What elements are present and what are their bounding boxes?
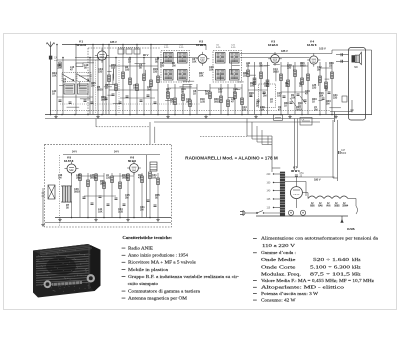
svg-text:2M: 2M bbox=[172, 65, 175, 68]
svg-text:5-25: 5-25 bbox=[164, 47, 169, 49]
svg-text:kHz: kHz bbox=[352, 257, 361, 262]
svg-text:2M: 2M bbox=[314, 109, 317, 112]
svg-text:220: 220 bbox=[242, 109, 247, 112]
svg-text:5000: 5000 bbox=[341, 153, 347, 155]
svg-text:Antenna magnetica per OM: Antenna magnetica per OM bbox=[128, 295, 187, 300]
svg-text:Potenza d’uscita max: 3 W: Potenza d’uscita max: 3 W bbox=[261, 291, 319, 296]
svg-text:5000: 5000 bbox=[122, 177, 128, 180]
svg-text:Mobile in plastica: Mobile in plastica bbox=[128, 267, 168, 272]
svg-text:220: 220 bbox=[287, 67, 292, 70]
svg-text:0,05: 0,05 bbox=[200, 101, 205, 104]
svg-text:V 1: V 1 bbox=[79, 40, 84, 44]
svg-text:110 a 220 V: 110 a 220 V bbox=[262, 243, 296, 248]
svg-text:1K: 1K bbox=[312, 101, 315, 104]
svg-text:V 3: V 3 bbox=[271, 40, 276, 44]
svg-text:Caratteristiche tecniche:: Caratteristiche tecniche: bbox=[122, 235, 172, 240]
svg-text:10K: 10K bbox=[291, 97, 296, 100]
svg-text:5-25: 5-25 bbox=[231, 47, 236, 49]
svg-text:24 V: 24 V bbox=[72, 151, 77, 154]
svg-text:10K: 10K bbox=[260, 109, 265, 112]
svg-text:Anno inizio produzione : 1954: Anno inizio produzione : 1954 bbox=[128, 253, 189, 258]
svg-text:Onde Medie: Onde Medie bbox=[261, 257, 296, 262]
svg-text:2M: 2M bbox=[91, 85, 94, 88]
svg-text:BE6: BE6 bbox=[310, 205, 315, 207]
svg-text:10K: 10K bbox=[192, 61, 197, 64]
svg-text:5000: 5000 bbox=[273, 71, 279, 74]
svg-text:1K: 1K bbox=[133, 87, 136, 90]
svg-text:220: 220 bbox=[312, 87, 317, 90]
svg-text:220: 220 bbox=[153, 71, 158, 74]
svg-text:5000: 5000 bbox=[90, 177, 96, 180]
svg-text:12 BA 6: 12 BA 6 bbox=[268, 43, 278, 47]
svg-text:2M: 2M bbox=[326, 103, 329, 106]
svg-text:1K: 1K bbox=[233, 91, 236, 94]
svg-text:35W4: 35W4 bbox=[342, 205, 349, 207]
svg-text:AV6: AV6 bbox=[326, 204, 331, 207]
svg-text:185 V: 185 V bbox=[281, 49, 288, 53]
svg-text:105 V: 105 V bbox=[319, 47, 326, 51]
svg-text:BA6: BA6 bbox=[318, 204, 323, 207]
svg-text:10K: 10K bbox=[319, 95, 324, 98]
svg-text:5000: 5000 bbox=[74, 191, 80, 194]
svg-text:5000: 5000 bbox=[101, 99, 107, 102]
svg-text:Gamme d’onda :: Gamme d’onda : bbox=[261, 250, 296, 255]
svg-text:10K: 10K bbox=[199, 75, 204, 78]
svg-text:220: 220 bbox=[106, 177, 111, 180]
svg-text:2M: 2M bbox=[147, 89, 150, 92]
svg-text:5.100 ÷ 6.300: 5.100 ÷ 6.300 bbox=[310, 264, 350, 269]
svg-text:50 B 5: 50 B 5 bbox=[128, 159, 136, 163]
svg-text:220: 220 bbox=[333, 97, 338, 100]
svg-text:180 V: 180 V bbox=[314, 179, 321, 182]
svg-text:100: 100 bbox=[250, 85, 255, 88]
svg-text:Consumo: 42 W: Consumo: 42 W bbox=[261, 297, 297, 302]
svg-text:C47: C47 bbox=[341, 150, 346, 152]
svg-text:cuito stampato: cuito stampato bbox=[128, 281, 158, 286]
svg-text:185 V: 185 V bbox=[110, 40, 117, 44]
svg-text:5-25: 5-25 bbox=[216, 47, 221, 49]
svg-text:Radio ANIE: Radio ANIE bbox=[128, 245, 153, 250]
svg-text:1K: 1K bbox=[284, 105, 287, 108]
svg-text:5000: 5000 bbox=[100, 183, 106, 186]
svg-text:10K: 10K bbox=[52, 75, 57, 78]
svg-text:1K: 1K bbox=[63, 81, 66, 84]
svg-text:12 AV 6: 12 AV 6 bbox=[307, 43, 317, 47]
svg-text:5000: 5000 bbox=[214, 101, 220, 104]
svg-text:V 2: V 2 bbox=[199, 40, 204, 44]
svg-text:220: 220 bbox=[98, 71, 103, 74]
svg-text:Altoparlante: MD - elittico: Altoparlante: MD - elittico bbox=[261, 285, 344, 290]
svg-text:12 AJ 8: 12 AJ 8 bbox=[77, 43, 87, 47]
svg-text:V 4: V 4 bbox=[310, 40, 315, 44]
svg-text:100: 100 bbox=[277, 95, 282, 98]
svg-text:MHz: MHz bbox=[352, 272, 361, 277]
svg-text:100: 100 bbox=[160, 65, 165, 68]
svg-text:90 V: 90 V bbox=[143, 53, 149, 57]
svg-text:Modulaz. Freq.: Modulaz. Freq. bbox=[261, 272, 301, 277]
svg-text:0,05: 0,05 bbox=[118, 211, 123, 214]
svg-text:5000: 5000 bbox=[300, 65, 306, 68]
svg-text:100: 100 bbox=[170, 101, 175, 104]
svg-text:100: 100 bbox=[152, 177, 157, 180]
svg-text:520 ÷ 1.640: 520 ÷ 1.640 bbox=[313, 257, 349, 262]
svg-text:100: 100 bbox=[264, 85, 269, 88]
svg-text:50B5: 50B5 bbox=[334, 205, 340, 207]
svg-text:2M: 2M bbox=[317, 69, 320, 72]
svg-text:1K: 1K bbox=[193, 93, 196, 96]
svg-text:2M: 2M bbox=[263, 95, 266, 98]
svg-text:12 BE 6: 12 BE 6 bbox=[196, 43, 206, 47]
svg-text:MD: MD bbox=[354, 66, 358, 69]
svg-text:5000: 5000 bbox=[97, 89, 103, 92]
svg-text:0,05: 0,05 bbox=[57, 67, 62, 70]
svg-text:Alimentazione con autotrasform: Alimentazione con autotrasformatore per … bbox=[261, 236, 378, 241]
svg-text:5000: 5000 bbox=[296, 109, 302, 112]
svg-text:5-25: 5-25 bbox=[179, 47, 184, 49]
svg-text:12 AT 6: 12 AT 6 bbox=[64, 159, 74, 163]
svg-text:100: 100 bbox=[218, 91, 223, 94]
svg-text:10K: 10K bbox=[98, 211, 103, 214]
svg-text:10K: 10K bbox=[209, 69, 214, 72]
svg-text:FUSIB.: FUSIB. bbox=[347, 228, 355, 231]
svg-text:kHz: kHz bbox=[352, 264, 361, 269]
svg-text:1K: 1K bbox=[285, 85, 288, 88]
svg-text:Onde Corte: Onde Corte bbox=[261, 264, 296, 269]
svg-text:Ricevitore MA + MF a 5 valvole: Ricevitore MA + MF a 5 valvole bbox=[128, 260, 196, 265]
svg-text:2M: 2M bbox=[76, 177, 79, 180]
svg-text:1K: 1K bbox=[249, 95, 252, 98]
svg-text:2M: 2M bbox=[259, 65, 262, 68]
svg-text:1K: 1K bbox=[270, 101, 273, 104]
svg-text:Commutatore di gamma a tastier: Commutatore di gamma a tastiera bbox=[128, 288, 200, 293]
svg-text:Gruppo R.F. a induttanza varia: Gruppo R.F. a induttanza variabile reali… bbox=[128, 274, 240, 279]
svg-text:2M: 2M bbox=[140, 209, 143, 212]
svg-text:100: 100 bbox=[111, 67, 116, 70]
svg-text:24 V: 24 V bbox=[114, 151, 119, 154]
svg-text:RADIOMARELLI Mod. « ALADINO: RADIOMARELLI Mod. « ALADINO » 178 M bbox=[185, 156, 278, 161]
svg-text:100: 100 bbox=[125, 69, 130, 72]
svg-text:2M: 2M bbox=[125, 197, 128, 200]
svg-text:1K: 1K bbox=[52, 93, 55, 96]
